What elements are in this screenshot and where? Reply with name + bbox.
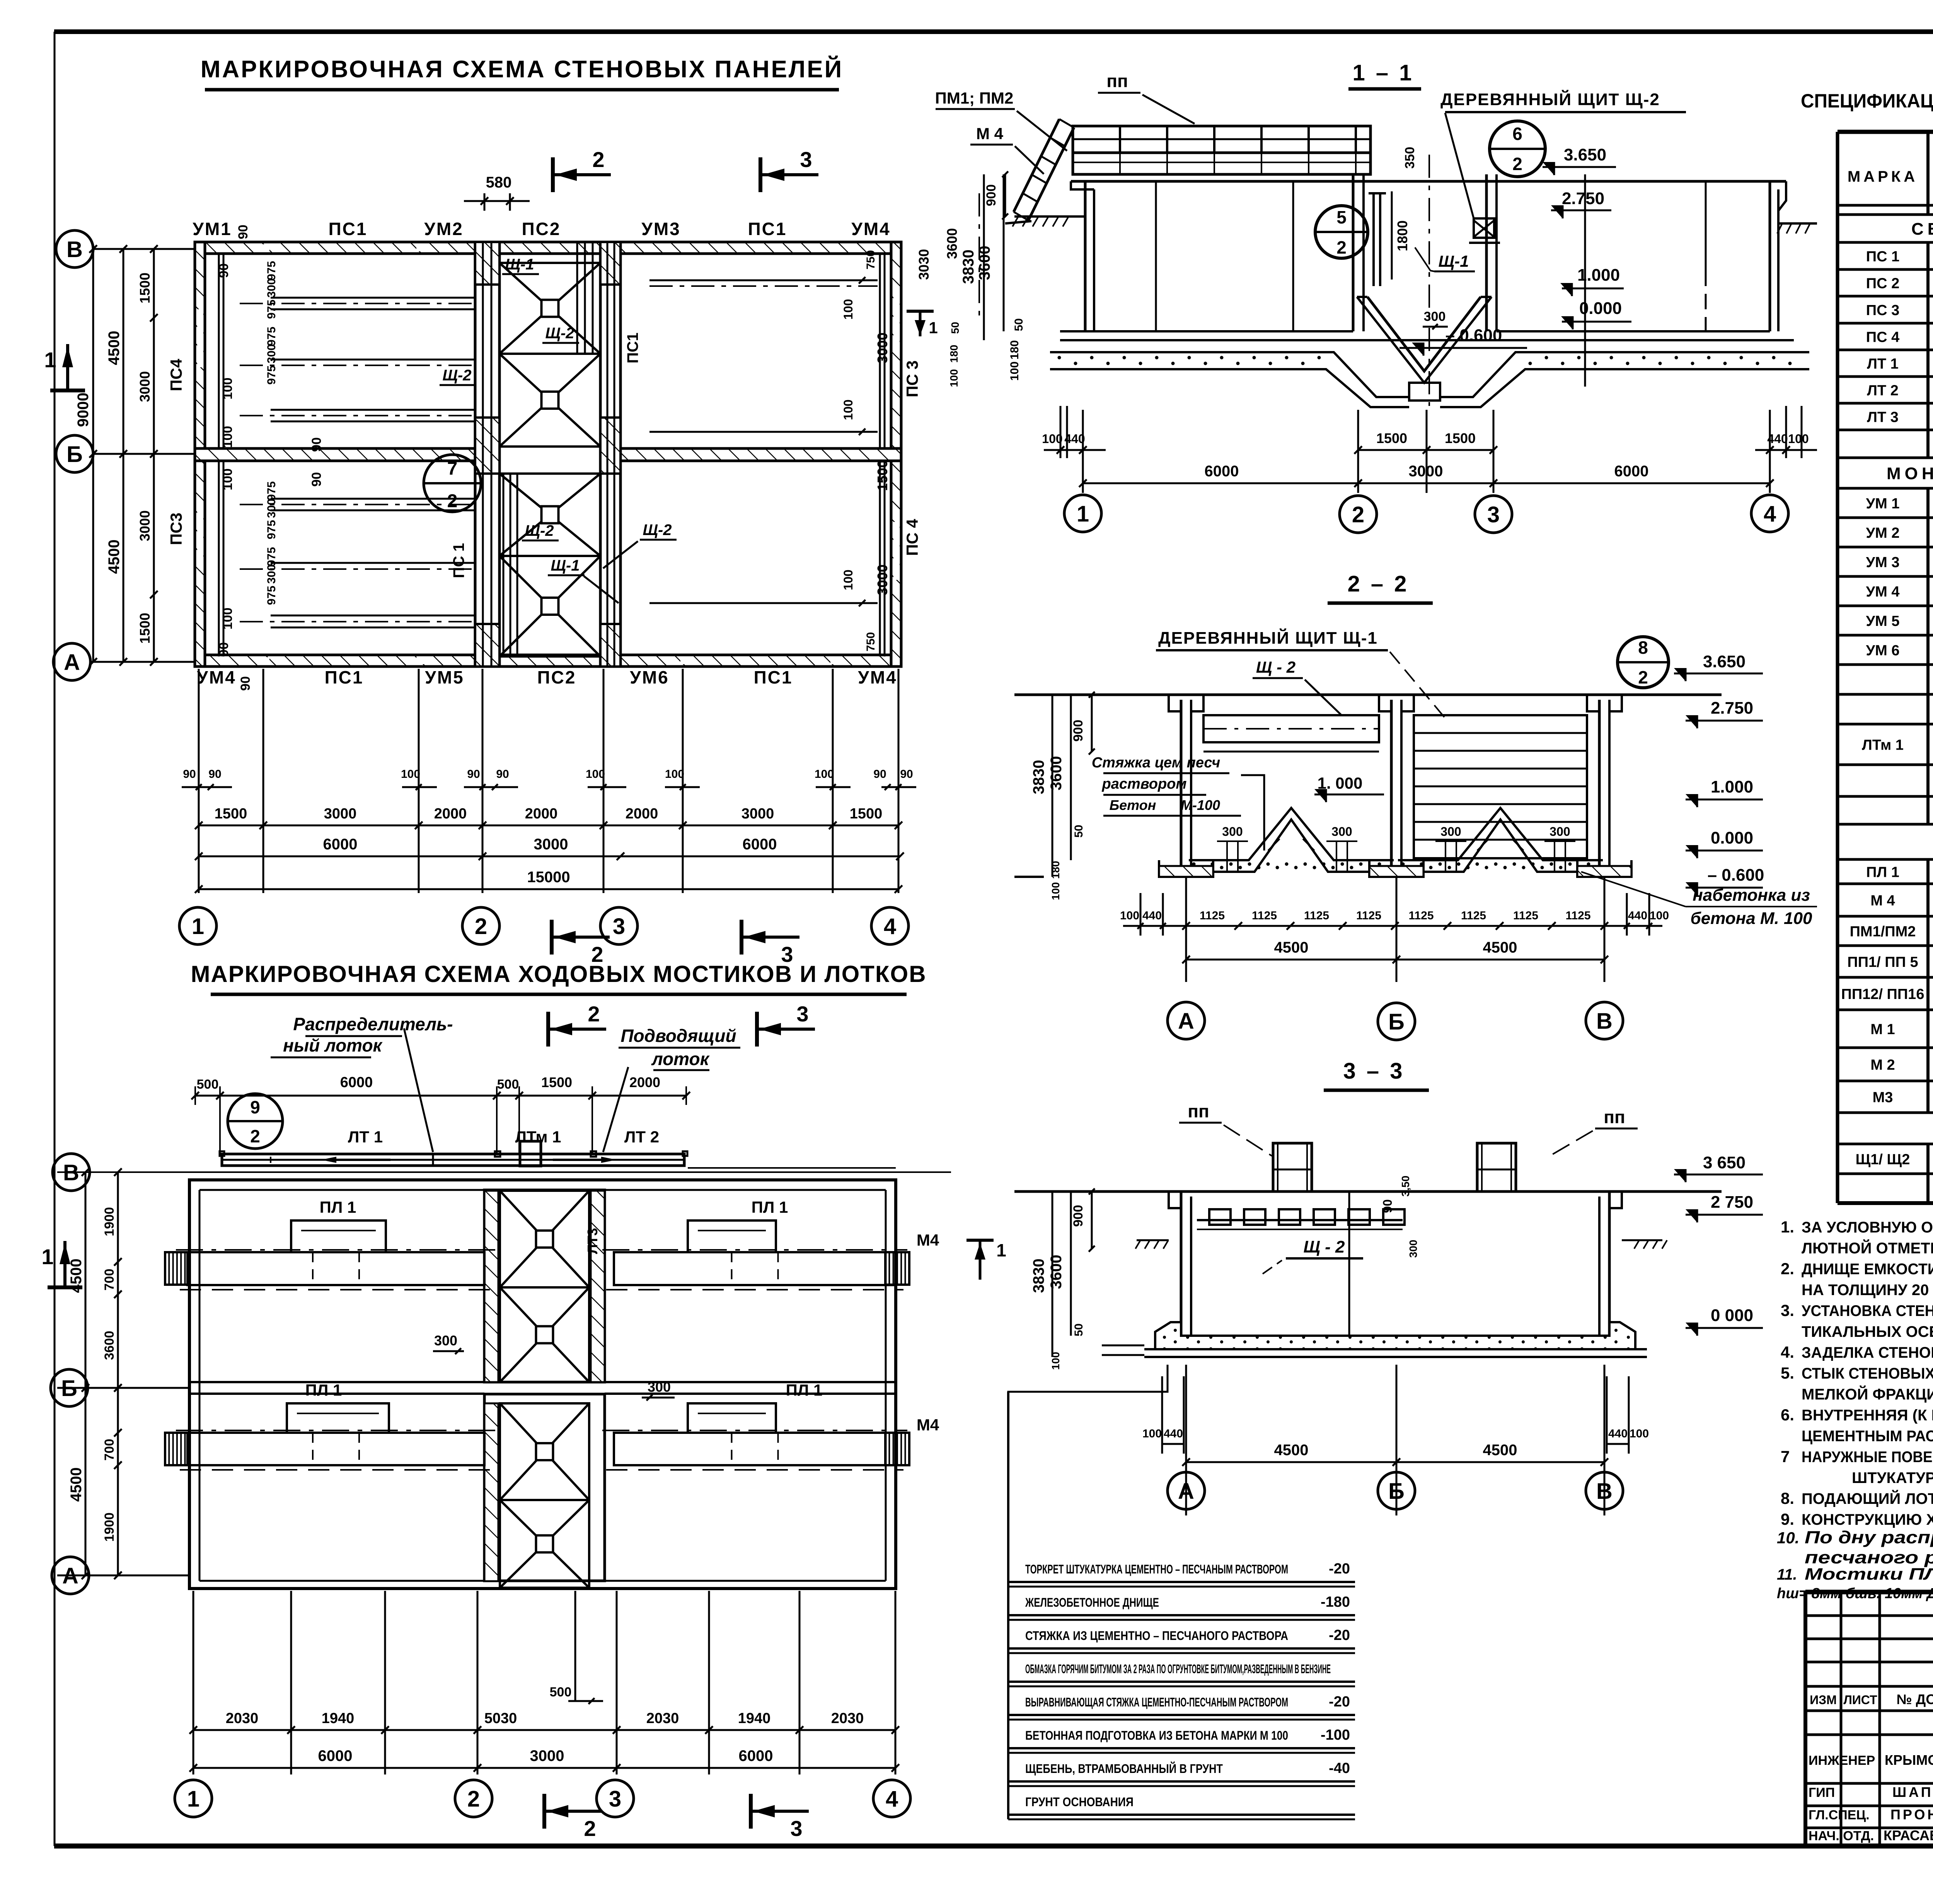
left rows	[1805, 1614, 1933, 1617]
svg-text:3,50: 3,50	[1399, 1176, 1411, 1197]
svg-text:ПС4: ПС4	[167, 358, 185, 391]
svg-text:А: А	[1178, 1479, 1194, 1504]
X-brace shield panels (shchit) center shafts	[499, 263, 600, 354]
left dims lower plan	[85, 1172, 87, 1575]
svg-text:3000: 3000	[137, 510, 153, 541]
svg-text:ПС3: ПС3	[167, 513, 185, 545]
section 3-3 axis circles	[1168, 1472, 1205, 1509]
section 2-2 bottom dims	[1185, 877, 1187, 982]
svg-text:90: 90	[183, 768, 196, 781]
svg-text:2: 2	[584, 1816, 596, 1841]
elevations right 3-3	[1674, 1174, 1763, 1176]
svg-text:МАРКИРОВОЧНАЯ СХЕМА СТЕНОВЫХ: МАРКИРОВОЧНАЯ СХЕМА СТЕНОВЫХ ПАНЕЛЕЙ	[201, 56, 843, 83]
stepped platforms PL1	[225, 1220, 452, 1252]
section flag 1 left	[966, 1239, 994, 1242]
svg-text:-20: -20	[1329, 1627, 1350, 1643]
hopper walls and shield	[1372, 193, 1375, 286]
svg-text:3000: 3000	[874, 564, 890, 595]
svg-text:3600: 3600	[1048, 756, 1065, 791]
svg-text:ГЛ.СПЕЦ.: ГЛ.СПЕЦ.	[1809, 1808, 1870, 1822]
white panel gaps in walls	[261, 244, 269, 251]
svg-text:СТЯЖКА ИЗ ЦЕМЕНТНО – ПЕСЧАНО: СТЯЖКА ИЗ ЦЕМЕНТНО – ПЕСЧАНОГО РАСТВОРА	[1025, 1629, 1288, 1643]
svg-text:2000: 2000	[629, 1074, 660, 1090]
svg-text:МАРКИРОВОЧНАЯ СХЕМА ХОДОВЫХ: МАРКИРОВОЧНАЯ СХЕМА ХОДОВЫХ МОСТИКОВ И Л…	[191, 961, 926, 987]
svg-text:Б: Б	[1388, 1479, 1405, 1504]
svg-text:100: 100	[1008, 361, 1021, 381]
svg-text:100: 100	[1788, 432, 1809, 446]
lower plan axis lines	[57, 1171, 951, 1173]
svg-text:Щ-1: Щ-1	[551, 557, 580, 574]
joint dash-dot lines upper-left	[240, 303, 475, 304]
svg-text:5: 5	[1336, 207, 1347, 227]
svg-text:180: 180	[948, 345, 960, 363]
svg-text:90: 90	[873, 768, 886, 781]
svg-text:9.: 9.	[1781, 1510, 1794, 1528]
svg-text:ПС1: ПС1	[325, 667, 364, 687]
axis circles	[53, 1154, 90, 1191]
svg-text:ный лоток: ный лоток	[283, 1035, 383, 1055]
svg-text:1125: 1125	[1304, 909, 1329, 922]
svg-text:1: 1	[1077, 501, 1089, 527]
svg-text:ЩЕБЕНЬ, ВТРАМБОВАННЫЙ В ГРУН: ЩЕБЕНЬ, ВТРАМБОВАННЫЙ В ГРУНТ	[1025, 1762, 1223, 1776]
svg-text:ВНУТРЕННЯЯ (К ВОДЕ) ПОВЕРХНО: ВНУТРЕННЯЯ (К ВОДЕ) ПОВЕРХНОСТЬ СТЫКОВ И…	[1802, 1407, 1933, 1424]
svg-text:500: 500	[197, 1077, 219, 1092]
inner verticals	[1348, 1191, 1350, 1336]
svg-text:УМ 3: УМ 3	[1866, 554, 1900, 571]
top line 3-3	[1014, 1190, 1722, 1193]
right wall	[1769, 181, 1771, 331]
svg-text:3000: 3000	[324, 806, 357, 822]
hopper bottom box	[1409, 383, 1440, 401]
svg-text:100: 100	[1042, 432, 1062, 446]
svg-text:11.: 11.	[1777, 1566, 1797, 1583]
svg-text:100: 100	[815, 768, 834, 781]
detail circle 5/2	[1315, 206, 1368, 258]
svg-text:ПРОНИН: ПРОНИН	[1890, 1807, 1933, 1822]
svg-text:300: 300	[1331, 825, 1352, 839]
chimney stubs	[1273, 1143, 1312, 1191]
svg-text:6000: 6000	[1205, 463, 1239, 480]
svg-text:4500: 4500	[1274, 939, 1309, 956]
svg-text:4: 4	[1764, 501, 1776, 527]
ground line left with hatch	[1014, 215, 1085, 218]
svg-text:2: 2	[467, 1786, 480, 1812]
svg-text:50: 50	[1013, 318, 1025, 331]
walls	[1180, 1191, 1183, 1341]
svg-text:М4: М4	[917, 1416, 939, 1434]
svg-text:100: 100	[1630, 1427, 1649, 1440]
svg-text:ЛТ 3: ЛТ 3	[1867, 409, 1899, 426]
svg-text:90: 90	[467, 768, 480, 781]
vertical lines in lower shaft	[503, 474, 505, 656]
svg-text:90: 90	[216, 263, 231, 278]
svg-text:– 0.600: – 0.600	[1708, 866, 1764, 885]
svg-text:1: 1	[192, 914, 204, 939]
svg-text:2: 2	[447, 491, 458, 511]
svg-text:2030: 2030	[226, 1710, 259, 1727]
svg-text:ПЛ 1: ПЛ 1	[1866, 864, 1899, 881]
svg-text:8: 8	[1638, 638, 1648, 658]
svg-text:В: В	[66, 237, 83, 262]
svg-text:ПС 3: ПС 3	[1866, 302, 1899, 319]
horizontal shield panel left span	[1203, 715, 1379, 742]
svg-text:300: 300	[265, 499, 278, 518]
svg-text:3600: 3600	[102, 1331, 117, 1360]
svg-text:3 650: 3 650	[1703, 1153, 1745, 1172]
svg-text:1125: 1125	[1565, 909, 1590, 922]
hopper V	[1367, 297, 1481, 371]
svg-text:975: 975	[265, 365, 278, 385]
section flag 3 top	[759, 157, 762, 192]
section flag 2 top	[551, 157, 555, 192]
svg-text:А: А	[64, 650, 80, 675]
svg-text:Щ-2: Щ-2	[525, 522, 554, 539]
svg-text:300: 300	[1440, 825, 1461, 839]
svg-text:1.000: 1.000	[1577, 266, 1620, 285]
svg-text:ЗАДЕЛКА СТЕНОВЫХ ПАНЕЛЕЙ В ПАЗ: ЗАДЕЛКА СТЕНОВЫХ ПАНЕЛЕЙ В ПАЗ ДНИЩА ПРО…	[1802, 1343, 1933, 1361]
svg-text:0.000: 0.000	[1711, 828, 1753, 847]
spec table vertical lines	[1836, 132, 1839, 1203]
section flag 1 lower-left	[48, 1285, 82, 1289]
svg-text:ПС1: ПС1	[624, 332, 641, 363]
section 1-1 bottom dims	[1082, 410, 1084, 493]
svg-text:2.750: 2.750	[1562, 189, 1604, 208]
svg-text:ПП12/ ПП16: ПП12/ ПП16	[1841, 986, 1924, 1002]
svg-text:2030: 2030	[646, 1710, 679, 1727]
svg-text:1125: 1125	[1513, 909, 1538, 922]
svg-text:6000: 6000	[1614, 463, 1649, 480]
svg-text:3000: 3000	[874, 332, 890, 363]
svg-text:Щ-2: Щ-2	[442, 367, 471, 384]
svg-text:100: 100	[1050, 882, 1062, 900]
svg-text:КОНСТРУКЦИЮ ХОДОВЫХ МОСТИКОВ С: КОНСТРУКЦИЮ ХОДОВЫХ МОСТИКОВ СМ НА ЛИСТЕ…	[1802, 1511, 1933, 1528]
svg-text:4500: 4500	[1274, 1442, 1309, 1459]
vertical dim chains left	[92, 249, 94, 662]
svg-text:1500: 1500	[1376, 430, 1407, 446]
side section flag 1 left	[50, 389, 85, 392]
center shaft with X braces	[484, 1190, 605, 1382]
svg-text:100: 100	[586, 768, 605, 781]
svg-text:2: 2	[1352, 502, 1364, 527]
svg-text:700: 700	[102, 1269, 117, 1291]
svg-text:5.: 5.	[1781, 1364, 1794, 1382]
svg-text:2: 2	[250, 1126, 260, 1146]
svg-text:По дну распределительного лотк: По дну распределительного лотка выполняе…	[1805, 1527, 1933, 1547]
svg-text:1900: 1900	[102, 1512, 117, 1542]
svg-text:1940: 1940	[738, 1710, 771, 1727]
svg-text:975: 975	[265, 327, 278, 346]
svg-text:песчаного раствора состава 1 3: песчаного раствора состава 1 3 с уклоном…	[1805, 1548, 1933, 1567]
svg-text:лоток: лоток	[651, 1049, 710, 1069]
svg-text:700: 700	[102, 1439, 117, 1461]
svg-text:УМ 2: УМ 2	[1866, 525, 1900, 541]
svg-text:В: В	[1596, 1479, 1613, 1504]
right tank joint	[1705, 181, 1707, 271]
svg-text:90: 90	[309, 472, 324, 487]
top line	[1014, 694, 1722, 696]
svg-text:6000: 6000	[323, 836, 358, 853]
svg-text:180: 180	[1008, 340, 1021, 360]
svg-text:ЛТ 2: ЛТ 2	[624, 1128, 659, 1146]
svg-text:ПЛ 1: ПЛ 1	[320, 1198, 356, 1216]
svg-text:МОНОЛИТНЫЕ ЖЕЛЕЗОБЕТОННЫЕ КО: МОНОЛИТНЫЕ ЖЕЛЕЗОБЕТОННЫЕ КОНСТРУКЦИИ	[1887, 464, 1933, 483]
svg-text:ПС 1: ПС 1	[450, 543, 467, 578]
walkway bands upper room	[188, 1252, 484, 1285]
svg-text:пп: пп	[1188, 1101, 1209, 1121]
svg-text:100: 100	[1050, 1352, 1062, 1370]
shield supports row	[1209, 1209, 1231, 1225]
svg-text:3: 3	[613, 914, 625, 939]
svg-text:100: 100	[841, 399, 855, 420]
svg-text:3000: 3000	[741, 806, 774, 822]
svg-text:КРЫМСКИЙ: КРЫМСКИЙ	[1885, 1752, 1933, 1768]
svg-text:100: 100	[220, 469, 235, 491]
svg-text:М4: М4	[917, 1231, 939, 1249]
svg-text:пп: пп	[1604, 1107, 1625, 1127]
svg-text:2.750: 2.750	[1711, 699, 1753, 718]
svg-text:1125: 1125	[1200, 909, 1225, 922]
svg-text:ЛИСТ: ЛИСТ	[1843, 1693, 1877, 1707]
svg-text:3600: 3600	[944, 228, 960, 259]
svg-text:90: 90	[900, 768, 913, 781]
svg-text:ПС 2: ПС 2	[1866, 276, 1899, 292]
svg-text:Щ-2: Щ-2	[643, 522, 672, 539]
svg-text:ЛТ 2: ЛТ 2	[1867, 383, 1899, 399]
svg-text:5030: 5030	[484, 1710, 517, 1727]
svg-text:6000: 6000	[739, 1747, 773, 1764]
90/100 ticks row	[182, 786, 232, 788]
svg-text:УМ 4: УМ 4	[1866, 584, 1900, 600]
svg-text:180: 180	[1050, 861, 1062, 879]
svg-text:раствором: раствором	[1101, 776, 1186, 792]
svg-text:ИНЖЕНЕР: ИНЖЕНЕР	[1809, 1753, 1875, 1768]
svg-text:3000: 3000	[534, 836, 568, 853]
svg-text:4500: 4500	[106, 540, 123, 574]
svg-text:-40: -40	[1329, 1760, 1350, 1776]
svg-text:2: 2	[592, 147, 604, 172]
svg-text:4: 4	[884, 914, 896, 939]
svg-text:ПОДАЮЩИЙ ЛОТОК РАЗРАБОТАН В Т: ПОДАЮЩИЙ ЛОТОК РАЗРАБОТАН В Т П 902-2- А…	[1802, 1490, 1933, 1507]
svg-text:6: 6	[1512, 124, 1522, 144]
svg-text:УМ 5: УМ 5	[1866, 613, 1900, 629]
side section flag 1 right	[907, 310, 934, 313]
svg-text:СТЫК СТЕНОВЫХ ПАНЕЛЕЙ ВЫПОЛНЯЕ: СТЫК СТЕНОВЫХ ПАНЕЛЕЙ ВЫПОЛНЯЕТСЯ ИЗ БЕТ…	[1802, 1364, 1933, 1382]
svg-text:ШТУКАТУРЯТСЯ: ШТУКАТУРЯТСЯ	[1852, 1469, 1933, 1486]
svg-text:УМ 1: УМ 1	[1866, 496, 1900, 512]
svg-text:Б: Б	[66, 442, 83, 467]
svg-text:3600: 3600	[1048, 1255, 1065, 1289]
svg-text:УМ6: УМ6	[630, 667, 669, 687]
svg-text:10.: 10.	[1777, 1529, 1799, 1547]
svg-text:МАРКА: МАРКА	[1848, 168, 1918, 185]
sheet border frame	[54, 29, 1933, 34]
svg-text:– 0.600: – 0.600	[1445, 326, 1502, 345]
svg-text:3830: 3830	[960, 250, 977, 284]
svg-text:ТОРКРЕТ ШТУКАТУРКА ЦЕМЕНТНО –: ТОРКРЕТ ШТУКАТУРКА ЦЕМЕНТНО – ПЕСЧАНЫМ Р…	[1025, 1562, 1288, 1576]
svg-text:100: 100	[220, 426, 235, 448]
svg-text:М 4: М 4	[976, 124, 1004, 143]
svg-text:УСТАНОВКА СТЕНОВЫХ ПАНЕЛЕЙ ПРО: УСТАНОВКА СТЕНОВЫХ ПАНЕЛЕЙ ПРОИЗВОДИТСЯ …	[1802, 1302, 1933, 1319]
right room joint lines	[649, 280, 878, 281]
svg-text:В: В	[1596, 1009, 1613, 1034]
svg-text:7: 7	[447, 459, 458, 479]
left wall	[1084, 181, 1087, 331]
svg-text:ЛЮТНОЙ ОТМЕТКЕ: ЛЮТНОЙ ОТМЕТКЕ	[1802, 1239, 1933, 1257]
svg-text:1900: 1900	[102, 1207, 117, 1236]
svg-text:ЛТ 1: ЛТ 1	[348, 1128, 383, 1146]
svg-text:90: 90	[216, 642, 231, 657]
svg-text:ПС1: ПС1	[754, 667, 793, 687]
svg-text:50: 50	[1072, 1323, 1085, 1336]
svg-text:900: 900	[1071, 720, 1086, 742]
svg-text:Щ - 2: Щ - 2	[1256, 658, 1295, 676]
svg-text:3.650: 3.650	[1564, 145, 1606, 164]
leader to layers table	[1008, 1365, 1168, 1565]
svg-text:300: 300	[1424, 309, 1446, 324]
svg-text:100: 100	[841, 299, 855, 319]
dim row 2	[199, 856, 900, 857]
svg-text:4500: 4500	[1483, 1442, 1517, 1459]
left tank joints	[1155, 181, 1157, 331]
svg-text:М 2: М 2	[1870, 1057, 1895, 1073]
svg-text:Бетон: Бетон	[1110, 797, 1156, 813]
plan outer wall top (hatched)	[195, 242, 901, 254]
svg-text:М 4: М 4	[1870, 893, 1895, 909]
left axis circles and dims	[56, 230, 93, 268]
svg-text:3000: 3000	[1409, 463, 1443, 480]
panel joint lines upper-left room	[271, 297, 475, 299]
vertical chain for elevations	[1584, 174, 1586, 387]
svg-text:Б: Б	[1388, 1009, 1405, 1035]
svg-text:Щ-1: Щ-1	[505, 256, 534, 273]
svg-text:Щ1/ Щ2: Щ1/ Щ2	[1856, 1152, 1910, 1168]
title block outer	[1805, 1590, 1933, 1594]
svg-text:2: 2	[1512, 154, 1522, 174]
svg-text:набетонка из: набетонка из	[1693, 886, 1810, 905]
svg-text:4500: 4500	[1483, 939, 1517, 956]
svg-text:1500: 1500	[137, 273, 153, 303]
axis-3 wall band	[600, 242, 620, 666]
svg-text:2000: 2000	[525, 806, 558, 822]
svg-text:300: 300	[1222, 825, 1243, 839]
tank top line	[1071, 180, 1786, 183]
ladder left of bridge	[1028, 128, 1074, 220]
detail circle 7/2	[424, 455, 481, 512]
section flag 3	[755, 1012, 759, 1047]
svg-text:3: 3	[790, 1816, 802, 1841]
svg-text:975: 975	[265, 547, 278, 566]
svg-text:90: 90	[496, 768, 509, 781]
axis-2 center wall band	[475, 242, 499, 666]
svg-text:1: 1	[187, 1786, 199, 1812]
svg-text:ПЛ 1: ПЛ 1	[305, 1381, 342, 1399]
svg-text:1500: 1500	[215, 806, 247, 822]
svg-text:3830: 3830	[1030, 760, 1047, 794]
svg-text:2000: 2000	[434, 806, 467, 822]
ladder hatch strips at band ends	[165, 1252, 189, 1285]
svg-text:СПЕЦИФИКАЦИЯ ЭЛЕМЕНТОВ К МА: СПЕЦИФИКАЦИЯ ЭЛЕМЕНТОВ К МАРКИРОВОЧНОЙ С…	[1801, 90, 1933, 112]
svg-text:ЛТ3: ЛТ3	[585, 1228, 600, 1254]
svg-text:3 – 3: 3 – 3	[1343, 1059, 1405, 1084]
svg-text:ПМ1/ПМ2: ПМ1/ПМ2	[1850, 924, 1916, 940]
svg-text:3830: 3830	[1030, 1259, 1047, 1293]
svg-text:440: 440	[1628, 909, 1647, 922]
svg-text:ПЛ 1: ПЛ 1	[786, 1381, 823, 1399]
svg-text:В: В	[63, 1160, 79, 1185]
svg-text:1: 1	[44, 348, 56, 372]
left columns	[1840, 1592, 1843, 1846]
svg-text:100: 100	[401, 768, 420, 781]
svg-text:УМ4: УМ4	[858, 667, 897, 687]
svg-text:-20: -20	[1329, 1561, 1350, 1577]
svg-text:Распределитель-: Распределитель-	[293, 1014, 453, 1034]
svg-text:3030: 3030	[916, 249, 932, 280]
lower plan bottom dim rows	[193, 1591, 194, 1774]
svg-text:2: 2	[1638, 667, 1648, 687]
dim 1800 rotated	[1391, 191, 1393, 280]
svg-text:100: 100	[841, 569, 855, 590]
bottom section flags 2,3	[550, 920, 554, 955]
svg-text:9000: 9000	[75, 393, 92, 427]
svg-text:300: 300	[265, 564, 278, 584]
svg-text:ПС 4: ПС 4	[903, 519, 921, 556]
svg-text:1500: 1500	[137, 613, 153, 644]
svg-text:580: 580	[486, 174, 512, 191]
svg-text:1125: 1125	[1356, 909, 1381, 922]
svg-text:УМ2: УМ2	[424, 219, 464, 239]
svg-text:ПС2: ПС2	[537, 667, 576, 687]
svg-text:2030: 2030	[831, 1710, 864, 1727]
bottom hoppers	[1189, 808, 1394, 860]
svg-text:ПС1: ПС1	[748, 219, 787, 239]
svg-text:50: 50	[1072, 825, 1085, 837]
svg-text:УМ5: УМ5	[425, 667, 464, 687]
svg-text:А: А	[62, 1563, 78, 1589]
svg-text:КРАСАВИН: КРАСАВИН	[1884, 1827, 1933, 1843]
detail circle 9/2	[228, 1094, 283, 1149]
svg-text:300: 300	[265, 344, 278, 363]
spec table horizontal lines	[1838, 130, 1933, 134]
svg-text:90: 90	[238, 676, 253, 691]
svg-text:НАЧ. ОТД.: НАЧ. ОТД.	[1809, 1829, 1874, 1843]
svg-text:350: 350	[1403, 147, 1417, 169]
svg-text:А: А	[1178, 1009, 1194, 1034]
svg-text:Мостики ПЛ-1 привариваются: Мостики ПЛ-1 привариваются к закладным д…	[1805, 1565, 1933, 1584]
shaft side hatch strips	[484, 1191, 498, 1382]
svg-text:3.: 3.	[1781, 1301, 1794, 1319]
section 3-3 bottom dims	[1185, 1365, 1187, 1515]
svg-text:2 750: 2 750	[1711, 1193, 1753, 1212]
svg-text:ОБМАЗКА ГОРЯЧИМ БИТУМОМ ЗА 2 Р: ОБМАЗКА ГОРЯЧИМ БИТУМОМ ЗА 2 РАЗА ПО ОГР…	[1025, 1662, 1331, 1676]
LTm1 hopper on tray	[520, 1141, 541, 1166]
svg-text:Щ-2: Щ-2	[545, 325, 574, 342]
plan outer wall left (hatched)	[195, 242, 205, 666]
elevation marks right	[1543, 166, 1616, 168]
svg-text:ПМ1; ПМ2: ПМ1; ПМ2	[935, 89, 1014, 107]
plan outer wall right (hatched)	[891, 242, 901, 666]
svg-text:ДЕРЕВЯННЫЙ ЩИТ Щ-1: ДЕРЕВЯННЫЙ ЩИТ Щ-1	[1158, 628, 1378, 648]
tray flow arrows	[331, 1159, 390, 1161]
svg-text:пп: пп	[1106, 71, 1128, 91]
distribution tray (top bar)	[222, 1154, 684, 1166]
svg-text:8.: 8.	[1781, 1489, 1794, 1507]
svg-text:1940: 1940	[322, 1710, 355, 1727]
detail circle 6/2	[1490, 121, 1545, 177]
svg-text:1125: 1125	[1252, 909, 1277, 922]
svg-text:975: 975	[265, 300, 278, 319]
svg-text:Подводящий: Подводящий	[620, 1026, 736, 1046]
svg-text:1800: 1800	[1394, 220, 1410, 251]
